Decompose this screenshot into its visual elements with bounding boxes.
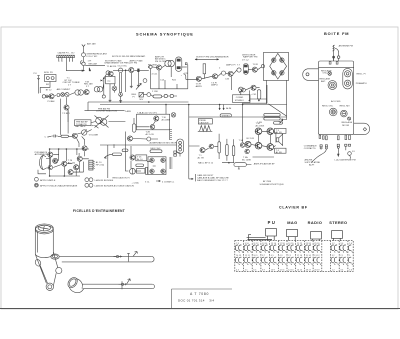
COMM STEREO box [233, 95, 251, 103]
svg-text:14 13: 14 13 [236, 255, 242, 257]
binocular coil b1 [94, 87, 99, 92]
discriminator double coil [165, 60, 171, 66]
junction block [185, 63, 187, 65]
electrolytic circle plus [130, 168, 136, 174]
stadium pair a [264, 114, 280, 117]
capacitor on wire [138, 69, 140, 72]
clavier switch column 13 [348, 243, 352, 271]
speaker cone arcs [39, 155, 46, 169]
drum body right edge [52, 229, 54, 252]
svg-text:SELF 1H2: SELF 1H2 [150, 148, 161, 150]
long line det right down [279, 122, 281, 124]
legend circles right b [85, 183, 93, 187]
svg-text:+ 12 AL: + 12 AL [132, 182, 140, 185]
upper cord rounded end [152, 256, 154, 262]
svg-text:2 C80: 2 C80 [152, 91, 159, 93]
svg-text:PU AM: PU AM [48, 100, 55, 103]
FI lower bus [151, 88, 188, 90]
power transistor d [62, 161, 67, 166]
wire [226, 72, 228, 75]
driver transistor [171, 113, 176, 118]
circle C6 [221, 71, 225, 75]
idler oval left [34, 259, 42, 267]
resistor stadium v1 [218, 142, 221, 153]
ground under box [109, 99, 112, 102]
wire box to mixer [109, 84, 111, 99]
wires output stage [251, 131, 276, 147]
svg-text:REGLAGE: REGLAGE [342, 121, 353, 124]
power wires [50, 149, 88, 176]
diode D1 [272, 58, 276, 62]
title block top rule [172, 288, 233, 290]
FM box outline [319, 61, 354, 135]
svg-text:13 12: 13 12 [314, 255, 320, 257]
edge connector comb vertical [170, 129, 172, 140]
svg-text:MAG: MAG [287, 220, 297, 225]
wire to volume [82, 136, 85, 145]
IF can MF2 [243, 64, 248, 75]
wire coil down-left [40, 82, 50, 94]
transistor T8 dark [252, 67, 257, 72]
junction dots det [249, 100, 260, 101]
arrow right of stadium [281, 119, 283, 121]
svg-text:AC128B: AC128B [162, 118, 171, 121]
arrow on cadre wire [82, 70, 85, 71]
pushrod bar dark [248, 239, 273, 240]
svg-text:BT 12: BT 12 [46, 90, 53, 92]
wire jack down to input circle [38, 80, 40, 94]
wires bf stage [189, 134, 234, 163]
wire pot up [78, 130, 92, 134]
svg-text:PRE AM BF: PRE AM BF [76, 120, 88, 123]
resistor stadium v3 [232, 146, 235, 156]
FM box inner top line [319, 66, 354, 68]
transistor TB dark [84, 90, 89, 95]
clavier switch column 9 [305, 243, 312, 271]
binocular coil a2 [78, 90, 83, 95]
button RADIO legs [313, 239, 320, 241]
svg-text:CLAVIER BF: CLAVIER BF [279, 206, 308, 210]
right tab hole [363, 128, 366, 131]
power transistor b [53, 158, 58, 163]
bottom pin mid [338, 136, 340, 140]
ground cap [137, 84, 140, 87]
resistor vertical alim [146, 167, 148, 174]
svg-text:SUPP PLATINE: SUPP PLATINE [305, 161, 321, 164]
transistor T7 dark [228, 71, 233, 76]
svg-text:C 12: C 12 [45, 136, 50, 138]
clavier switch column 7 [288, 243, 296, 271]
upper cord hook [133, 251, 138, 256]
wire [234, 70, 237, 74]
takeoff pulley inner [52, 255, 57, 258]
svg-text:BOITE FM: BOITE FM [324, 31, 349, 36]
lower cord rounded end [152, 284, 154, 289]
stadium pair b [264, 117, 280, 120]
svg-text:AL 5B: AL 5B [276, 131, 282, 134]
svg-text:+ C41: + C41 [251, 94, 258, 96]
svg-text:BC 149B: BC 149B [242, 159, 251, 161]
svg-text:1 FI: 1 FI [88, 61, 92, 63]
arrow alim bottom [156, 180, 161, 181]
can slug top [244, 65, 247, 67]
pushrod to PU [249, 237, 266, 239]
svg-text:CADRE PO - GO: CADRE PO - GO [58, 52, 75, 55]
main bus horizontal [88, 101, 189, 103]
IF can top slug [177, 59, 180, 61]
label box T25 [136, 155, 147, 161]
svg-text:FICELLES D'ENTRAINEMENT: FICELLES D'ENTRAINEMENT [73, 209, 125, 213]
diode D2 [280, 58, 284, 62]
bank column separators dashed [244, 241, 348, 272]
pin connectors right [345, 144, 352, 155]
label box PRE AM BF [75, 120, 92, 126]
wire chain to junction [103, 78, 104, 89]
pot volume circle [82, 129, 87, 135]
transistor T9 dark [251, 85, 256, 90]
drop to alim arrows [220, 105, 224, 107]
transistor T1 mixer [108, 71, 113, 76]
left tab hole [306, 73, 309, 76]
power bus bottom [50, 175, 80, 177]
svg-text:MEL AM: MEL AM [89, 63, 97, 66]
wire T8 to ratio detector [258, 67, 262, 70]
junction dot [125, 70, 126, 71]
output transistor Q2 [267, 128, 274, 135]
BF left border wire [188, 105, 190, 179]
cadre hatch lines [58, 55, 74, 57]
speaker wires [38, 159, 50, 174]
wires alim [114, 144, 156, 171]
svg-text:20 19: 20 19 [314, 269, 320, 271]
bottom line bf [253, 156, 275, 158]
det sub box [242, 85, 267, 103]
clavier switch column 10 [314, 243, 322, 271]
wire mixer down-left to cadre [66, 58, 83, 71]
upper cord tension spring [114, 255, 123, 257]
drum body shading line [37, 232, 39, 253]
ground T2 [130, 85, 133, 88]
resistor vertical R10 [203, 64, 206, 74]
transistor TF dark lower [64, 105, 69, 110]
power transistor a dark [48, 152, 53, 157]
svg-text:REGL. FI: REGL. FI [357, 74, 367, 76]
pickup coil circle b [51, 77, 54, 80]
junction dots bus [120, 102, 243, 106]
wire T2 east [134, 69, 149, 71]
mixer cross circle [112, 84, 117, 93]
clavier switch column 4 [261, 243, 268, 271]
wire to T4 [152, 66, 157, 69]
bottom page rule [0, 308, 400, 310]
power transistor g big dark [77, 156, 82, 161]
circle below junction [102, 95, 105, 98]
pin connectors below [320, 145, 328, 149]
takeoff pulley ellipse [51, 254, 59, 259]
switch bank dashed outline [235, 241, 353, 272]
knurled knob mid [329, 108, 337, 116]
svg-text:VOLUME: VOLUME [89, 135, 99, 137]
FM antenna hook [335, 48, 339, 56]
stadium fuse a [112, 153, 121, 156]
title block left rule [171, 289, 173, 309]
power left rail [49, 149, 51, 176]
svg-text:12 11: 12 11 [280, 269, 286, 271]
circle top right of chain [106, 71, 110, 75]
lower cord run top line [82, 283, 152, 285]
oscillator box [106, 76, 115, 83]
svg-text:DT 1-2: DT 1-2 [242, 59, 249, 61]
wire junction down [103, 78, 105, 95]
choke box [136, 169, 145, 174]
trimmer top circle [345, 71, 351, 77]
curved wire bottom left [311, 149, 326, 163]
stadium resistor row2 [153, 95, 162, 98]
svg-text:4 C11: 4 C11 [152, 74, 158, 76]
svg-text:AC 180K: AC 180K [256, 124, 265, 127]
svg-text:AMPLIFICATEUR BF: AMPLIFICATEUR BF [254, 163, 275, 166]
drop to tone box [165, 105, 167, 115]
alim arrows [219, 106, 224, 110]
antenna terminal circle [337, 56, 340, 59]
svg-text:CONTACTS: CONTACTS [304, 147, 316, 150]
circle row2 a [164, 94, 167, 97]
discriminator coil b [168, 60, 174, 66]
svg-text:CHANGEMENT DE FREQ.: CHANGEMENT DE FREQ. [104, 62, 131, 65]
junction [148, 67, 149, 68]
legend circles right a [85, 178, 93, 182]
wire det internals [245, 88, 259, 101]
wire tone to box [109, 121, 126, 123]
button RADIO [311, 232, 322, 240]
transistor BF T1 [200, 148, 205, 153]
wire tone internals [133, 118, 158, 139]
svg-text:RACCORDEMENT CDE 17 2 T: RACCORDEMENT CDE 17 2 T [197, 179, 228, 182]
long wire row2 down b [67, 110, 69, 133]
svg-text:14 13: 14 13 [288, 269, 294, 271]
cord drum to lower pulley [35, 252, 58, 284]
circle row2 b [170, 94, 173, 97]
slotted knob mid [341, 110, 348, 117]
drum top ellipse inner [38, 225, 50, 231]
cadre winding taps [59, 58, 73, 61]
long wire down right [187, 65, 189, 85]
svg-text:CONTRE REACTION: CONTRE REACTION [96, 110, 118, 113]
wire terminals into box [334, 58, 339, 61]
alim left vertical [107, 145, 109, 178]
diode D4 [280, 71, 284, 75]
svg-text:OSC.: OSC. [323, 73, 329, 75]
wire volume row [49, 135, 73, 137]
arrow to cable note [189, 178, 194, 179]
cord pulley up [53, 273, 56, 285]
bridge diode c [161, 158, 165, 162]
driver circle [82, 146, 87, 151]
wire X circle down [240, 92, 242, 95]
svg-text:AL/FI: AL/FI [309, 164, 315, 167]
button MAG [287, 229, 298, 236]
resistor stadium v2 [226, 144, 229, 155]
long line detector down [266, 80, 286, 119]
clavier switch column 1 [235, 243, 243, 271]
circle chain c dark [65, 93, 69, 97]
wire T5-T6 [202, 76, 212, 79]
bridge diode a [150, 158, 154, 162]
tone pot circle a [96, 117, 103, 124]
wire box down [124, 132, 126, 145]
mid pulley [56, 267, 62, 273]
svg-text:CIRCUIT TUNER: CIRCUIT TUNER [63, 82, 80, 84]
pickup coil circle a [46, 77, 49, 80]
wire antenna to mixer [83, 57, 85, 62]
FI drop wires [151, 67, 188, 89]
casque zigzag [200, 126, 211, 132]
diag wire to T3 [136, 83, 141, 89]
lower cord run bottom line [83, 288, 153, 290]
tick marks [100, 80, 102, 81]
svg-text:AT 7080: AT 7080 [263, 180, 272, 183]
bus vertical left [87, 102, 89, 111]
svg-text:APPUI TOTAL A CHAQUE MESSA: APPUI TOTAL A CHAQUE MESSAGE [40, 185, 78, 188]
antenna terminal dot [333, 56, 335, 58]
wire TF vertical [66, 97, 68, 104]
svg-text:STEREO: STEREO [222, 116, 231, 118]
svg-text:HP 2,5Ω: HP 2,5Ω [96, 165, 105, 167]
ratio detector diamond [270, 53, 287, 79]
diode D3 [272, 71, 276, 75]
svg-text:AMPLI: AMPLI [211, 84, 218, 87]
self stadium above bridge [150, 150, 162, 153]
long wire row2 down a [59, 99, 62, 136]
stadium resistor volume [61, 135, 69, 137]
svg-text:AC 14 B: AC 14 B [146, 133, 155, 136]
wire pot [222, 163, 251, 165]
bottom pins right [345, 135, 350, 140]
svg-text:L.A.21 ANTENNE FM: L.A.21 ANTENNE FM [335, 158, 356, 161]
lower pulley with hub [46, 283, 53, 290]
drum body left edge [34, 229, 36, 254]
antenna AM symbol [82, 45, 85, 53]
circle chain b dark [61, 93, 65, 97]
wire comm to T3 [242, 104, 244, 142]
transistor T4 dark [156, 65, 161, 70]
wire junction up [104, 74, 107, 78]
transistor T6 dark [212, 74, 217, 79]
clavier switch column 3 [253, 243, 260, 271]
detector output circle [242, 88, 246, 92]
tone crossing wires [95, 116, 109, 128]
mixer M1 circle [82, 62, 85, 65]
generator G1 circle [82, 53, 86, 57]
transistor volume dark [72, 133, 77, 138]
clavier switch column 6 [279, 243, 287, 271]
svg-text:SCHEMA SYNOPTIQUE: SCHEMA SYNOPTIQUE [260, 183, 285, 186]
upper cord run top line [59, 255, 152, 257]
FM antenna wire [333, 45, 335, 61]
wire down from T7 [230, 77, 232, 90]
svg-text:ALIMENTATION SECTEUR: ALIMENTATION SECTEUR [150, 141, 177, 144]
svg-text:AL 10: AL 10 [137, 158, 143, 161]
trimmer stadium right [343, 68, 353, 89]
svg-text:T.8 FI: T.8 FI [253, 64, 259, 66]
wire disc to can [162, 66, 165, 68]
svg-text:2 AFB: 2 AFB [125, 110, 131, 113]
binocular coil a1 [75, 90, 80, 95]
transistor TA dark [49, 94, 54, 99]
svg-text:PREAMPLI: PREAMPLI [356, 82, 367, 85]
upper cord run bottom line [62, 261, 152, 263]
arrow down mid [338, 148, 340, 156]
ratio detector box [263, 53, 288, 81]
second drum opening inner [68, 278, 77, 288]
bridge rectifier box [148, 157, 166, 175]
pickup coil box [45, 75, 57, 82]
svg-text:STEREO: STEREO [329, 220, 347, 225]
wire TF down [67, 110, 69, 122]
svg-text:DOC 01 701 314 3/4: DOC 01 701 314 3/4 [178, 299, 214, 303]
stadium stereo label [220, 114, 231, 118]
small circle J2 [46, 95, 48, 97]
svg-text:DISCRIMINAT.: DISCRIMINAT. [131, 55, 146, 58]
wire OL4 to T2 [113, 69, 129, 71]
oscillator circle OL4 [118, 68, 122, 72]
oval resistor det [257, 90, 260, 100]
IF can bottom slug [177, 67, 180, 69]
svg-text:17 16: 17 16 [297, 255, 303, 257]
casque hook curve [183, 74, 197, 80]
svg-text:RADIO: RADIO [308, 220, 323, 225]
svg-text:REGL OSC: REGL OSC [322, 106, 334, 108]
svg-text:FI 10.7 MC: FI 10.7 MC [87, 56, 98, 58]
circle right of reg [147, 93, 151, 97]
svg-text:BAL JACK: BAL JACK [75, 125, 86, 128]
svg-text:T.2 BF1: T.2 BF1 [62, 113, 70, 115]
svg-text:COMM.: COMM. [236, 97, 244, 99]
lower cord hook [127, 279, 131, 285]
svg-text:AMPLI: AMPLI [196, 85, 203, 88]
right pins wire [346, 146, 351, 159]
legend circle 2 [35, 183, 39, 187]
small circle on wire [261, 65, 264, 68]
svg-text:AM COMMUT: AM COMMUT [57, 88, 71, 91]
trimmer bottom circle [345, 80, 351, 86]
wire preamp box to tone [91, 122, 96, 123]
secteur connector comb [170, 157, 173, 169]
drum top ellipse outer [35, 224, 53, 233]
output transistor Q4 [267, 144, 274, 151]
wire chain [70, 93, 75, 95]
tone section box [137, 114, 170, 130]
hook wire top right [92, 125, 99, 128]
svg-text:APPUI SIMPLE: APPUI SIMPLE [40, 179, 56, 182]
upper cord pointer [127, 254, 129, 262]
svg-text:3 CL: 3 CL [145, 181, 150, 183]
svg-text:RAPPORT FM: RAPPORT FM [243, 56, 257, 59]
lower cord pointer [121, 281, 123, 289]
transistor BF T2 [209, 144, 214, 149]
svg-text:ANTENNE FM: ANTENNE FM [339, 44, 353, 47]
casque label [198, 119, 212, 125]
bridge diode b [150, 169, 154, 173]
cable note brace [195, 174, 197, 181]
stereo decoder X circle [238, 87, 243, 93]
power junction dots [49, 149, 77, 177]
wire mixer east [85, 65, 105, 67]
circle chain a [57, 94, 60, 97]
circle C7 [237, 68, 241, 72]
svg-text:REGULATION 7V: REGULATION 7V [113, 177, 131, 180]
svg-text:12 11: 12 11 [245, 255, 251, 257]
